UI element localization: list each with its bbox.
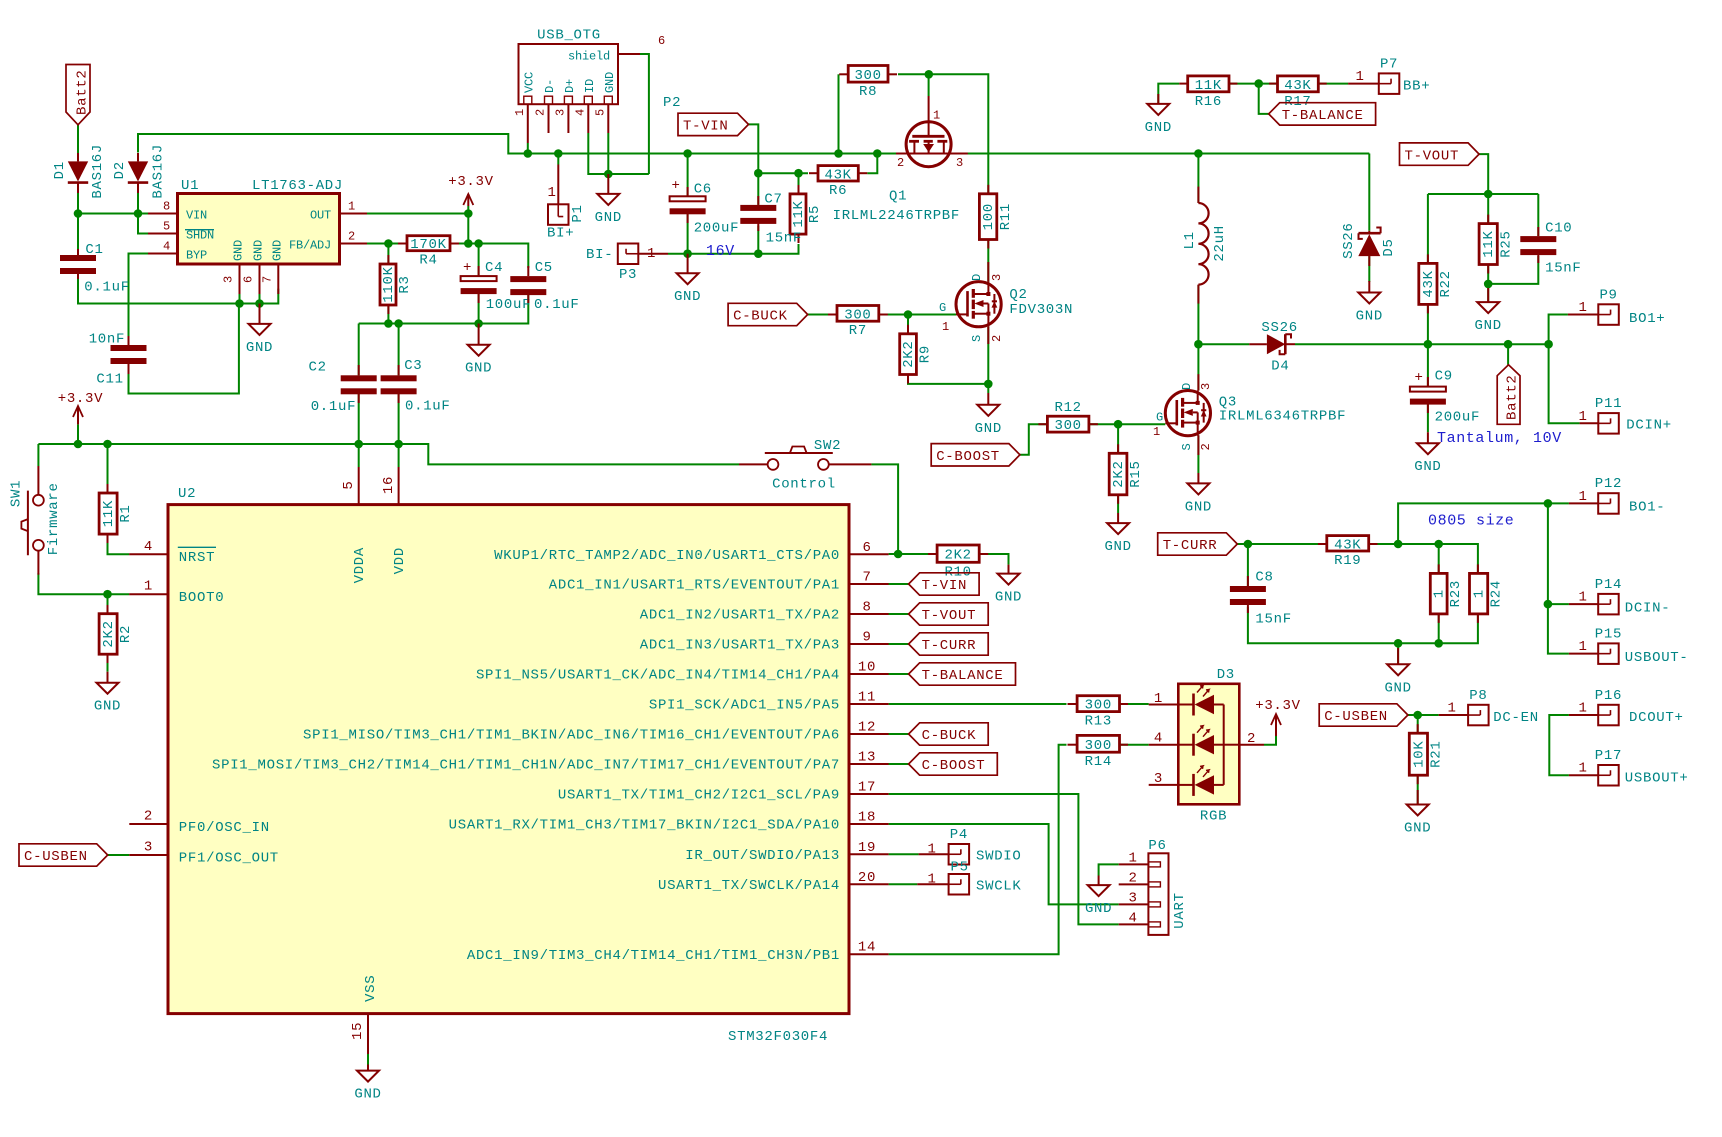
- wire R9 bottom to Q2 source: [908, 375, 988, 384]
- svg-text:GND: GND: [1085, 901, 1112, 917]
- svg-text:11K: 11K: [791, 200, 807, 227]
- svg-text:1: 1: [1578, 701, 1587, 717]
- svg-text:C1: C1: [85, 242, 103, 258]
- svg-text:43K: 43K: [1284, 78, 1311, 94]
- svg-text:1: 1: [942, 320, 949, 334]
- ground: [1185, 473, 1212, 515]
- svg-text:shield: shield: [568, 50, 610, 64]
- wire C3 bottom: [398, 392, 400, 444]
- capacitor C11: [111, 345, 147, 364]
- svg-text:10nF: 10nF: [89, 332, 125, 348]
- resistor R15: [1109, 453, 1144, 495]
- wire Q3 source down: [1197, 435, 1199, 473]
- MCU U2 body: [168, 505, 849, 1014]
- svg-text:P8: P8: [1469, 688, 1487, 704]
- svg-text:DCOUT+: DCOUT+: [1629, 710, 1684, 726]
- junction 798.5,173.2: [794, 169, 803, 178]
- svg-text:1: 1: [1153, 425, 1160, 439]
- wire T-VOUT pin8: [888, 613, 908, 615]
- ground: [595, 174, 622, 226]
- wire T-BALANCE drop: [1259, 84, 1269, 114]
- svg-text:U1: U1: [181, 178, 199, 194]
- svg-text:2: 2: [1199, 443, 1213, 450]
- net label T-VOUT: [909, 603, 989, 625]
- svg-text:GND: GND: [1414, 459, 1441, 475]
- junction 1438.7,544: [1434, 540, 1443, 549]
- wire C-USBEN to PF1: [108, 854, 130, 856]
- wire PA5 to R13: [889, 703, 1067, 705]
- svg-text:R8: R8: [859, 84, 877, 100]
- svg-text:VCC: VCC: [522, 72, 536, 93]
- wire T-CURR pin9: [888, 643, 908, 645]
- svg-text:R4: R4: [419, 253, 437, 269]
- connector P17: [1595, 748, 1622, 786]
- wire C4 top lead: [478, 244, 480, 277]
- svg-text:43K: 43K: [824, 167, 851, 183]
- wire switch node to D4: [1198, 343, 1249, 345]
- capacitor C8: [1230, 586, 1266, 605]
- wire C9 top: [1427, 344, 1429, 386]
- svg-text:ADC1_IN1/USART1_RTS/EVENTOUT/P: ADC1_IN1/USART1_RTS/EVENTOUT/PA1: [549, 578, 840, 594]
- wire P4 wire: [889, 853, 919, 855]
- svg-text:RGB: RGB: [1200, 808, 1227, 824]
- resistor R5: [790, 194, 823, 234]
- junction 1398.1,643.3: [1394, 639, 1403, 648]
- svg-text:4: 4: [163, 240, 170, 254]
- wire C10 bottom: [1488, 256, 1538, 284]
- svg-text:FDV303N: FDV303N: [1009, 302, 1073, 318]
- connector P12: [1595, 476, 1622, 514]
- wire R8 to Q1 gate node: [898, 74, 988, 194]
- svg-text:R24: R24: [1489, 580, 1505, 607]
- svg-text:D+: D+: [563, 79, 577, 93]
- svg-text:6: 6: [242, 276, 256, 283]
- svg-text:USART1_TX/TIM1_CH2/I2C1_SCL/PA: USART1_TX/TIM1_CH2/I2C1_SCL/PA9: [558, 788, 840, 804]
- svg-text:1: 1: [1355, 69, 1364, 85]
- ground: [1356, 281, 1383, 325]
- resistor R23: [1430, 573, 1464, 614]
- svg-text:BB+: BB+: [1403, 79, 1430, 95]
- wire PA0 to R10: [889, 553, 938, 555]
- connector P7: [1379, 56, 1400, 94]
- LED D3 body: [1178, 684, 1239, 805]
- ground: [465, 324, 492, 377]
- resistor R11: [979, 194, 1013, 240]
- wire P12 stub: [1548, 502, 1569, 504]
- svg-text:SPI1_MOSI/TIM3_CH2/TIM14_CH1/T: SPI1_MOSI/TIM3_CH2/TIM14_CH1/TIM1_CH1N/A…: [212, 758, 840, 774]
- svg-text:SWCLK: SWCLK: [976, 879, 1022, 895]
- switch SW1 Firmware: [9, 466, 63, 575]
- ground: [354, 1071, 381, 1103]
- wire R9 top: [907, 315, 909, 334]
- svg-text:SS26: SS26: [1261, 320, 1297, 336]
- svg-text:SWDIO: SWDIO: [976, 849, 1022, 865]
- svg-text:12: 12: [858, 720, 876, 736]
- svg-text:D5: D5: [1381, 238, 1397, 256]
- svg-text:D4: D4: [1271, 359, 1289, 375]
- svg-text:R5: R5: [807, 205, 823, 223]
- wire OUT node down: [467, 214, 469, 244]
- svg-text:ID: ID: [583, 79, 597, 93]
- svg-text:GND: GND: [465, 361, 492, 377]
- wire Batt2 bottom stub: [1507, 344, 1509, 365]
- svg-text:R6: R6: [829, 183, 847, 199]
- capacitor C3: [381, 375, 417, 394]
- svg-text:Batt2: Batt2: [75, 69, 91, 115]
- connector P8: [1468, 688, 1489, 726]
- wire R3 top stub: [387, 244, 389, 265]
- svg-text:Firmware: Firmware: [46, 482, 62, 555]
- svg-text:Tantalum, 10V: Tantalum, 10V: [1437, 430, 1562, 447]
- wire Q1 S/D rail: [896, 153, 968, 155]
- svg-text:3: 3: [1154, 771, 1163, 787]
- svg-text:18: 18: [858, 810, 876, 826]
- wire resistor stubs: [108, 74, 1489, 784]
- wire T-CURR node: [1237, 543, 1327, 545]
- svg-text:S: S: [1180, 443, 1194, 450]
- junction 558.3,153.5: [554, 149, 563, 158]
- wire L1 bottom to switch node: [1197, 285, 1199, 344]
- LED D3 RGB internals: [1149, 667, 1264, 824]
- svg-text:BAS16J: BAS16J: [151, 144, 167, 199]
- wire FB node: [367, 243, 407, 245]
- svg-text:D1: D1: [52, 161, 68, 179]
- svg-text:T-VOUT: T-VOUT: [922, 608, 977, 624]
- svg-text:G: G: [1156, 411, 1163, 425]
- svg-text:OUT: OUT: [310, 208, 331, 222]
- wire R12 to Q3 gate: [1089, 423, 1165, 425]
- svg-text:BOOT0: BOOT0: [179, 590, 225, 606]
- capacitor C10: [1520, 236, 1556, 255]
- svg-text:P1: P1: [570, 204, 586, 222]
- svg-text:1: 1: [647, 246, 656, 262]
- junction 358.7,444: [354, 440, 363, 449]
- junction 239.5,303.5: [235, 299, 244, 308]
- wire P2 pin5 GND down: [607, 133, 609, 174]
- svg-text:SW2: SW2: [814, 438, 841, 454]
- svg-text:1: 1: [1472, 589, 1488, 598]
- svg-text:P16: P16: [1595, 688, 1622, 704]
- power +3.3V near U1 OUT: [448, 174, 494, 214]
- svg-text:C-USBEN: C-USBEN: [24, 849, 88, 865]
- wire rail to L1: [1197, 154, 1199, 204]
- net label T-BALANCE: [909, 663, 1016, 685]
- regulator U1 body: [178, 194, 340, 265]
- svg-text:C2: C2: [309, 359, 327, 375]
- capacitor C2: [341, 375, 377, 394]
- junction 138,213.5: [134, 209, 143, 218]
- diode D1 BAS16J: [52, 144, 106, 199]
- svg-text:4: 4: [1154, 731, 1163, 747]
- svg-text:WKUP1/RTC_TAMP2/ADC_IN0/USART1: WKUP1/RTC_TAMP2/ADC_IN0/USART1_CTS/PA0: [494, 548, 840, 564]
- svg-text:0805 size: 0805 size: [1428, 512, 1514, 529]
- resistor R16: [1188, 76, 1229, 110]
- svg-text:VIN: VIN: [186, 208, 207, 222]
- svg-text:GND: GND: [232, 240, 246, 261]
- svg-text:+3.3V: +3.3V: [58, 391, 104, 407]
- wire Q2 source down: [987, 327, 989, 393]
- ground: [1384, 648, 1411, 696]
- wire R17 to P7: [1318, 83, 1348, 85]
- wire node D1/D2 to U1 VIN: [78, 213, 148, 215]
- svg-text:1: 1: [1578, 639, 1587, 655]
- svg-text:D3: D3: [1217, 667, 1235, 683]
- svg-text:R22: R22: [1438, 270, 1454, 297]
- wire R13 to D3 pin1: [1120, 703, 1149, 705]
- junction 388.4,323.5: [384, 319, 393, 328]
- wire PA9 to P6 pin4: [889, 794, 1119, 924]
- connector P2 USB_OTG: [513, 27, 681, 143]
- wire R10 right to GND: [979, 554, 1008, 565]
- transistor Q2 FDV303N: [956, 282, 1001, 327]
- svg-text:170K: 170K: [410, 237, 446, 253]
- wire connector pin stubs: [558, 84, 1598, 885]
- inductor L1 22uH: [1182, 187, 1228, 304]
- resistor R24: [1470, 573, 1505, 614]
- wire R25 bottom: [1487, 265, 1489, 284]
- wire C-BOOST pin13: [888, 763, 908, 765]
- svg-text:+: +: [671, 178, 680, 194]
- wire P16-P17 tie: [1549, 715, 1569, 775]
- net label Batt2 bottom: [1497, 365, 1520, 425]
- svg-text:T-CURR: T-CURR: [922, 638, 977, 654]
- svg-text:P12: P12: [1595, 476, 1622, 492]
- svg-text:SS26: SS26: [1341, 222, 1357, 258]
- wire P2 pin1 VCC: [527, 143, 529, 154]
- junction 1508.1,344.2: [1504, 340, 1513, 349]
- svg-text:+: +: [1414, 370, 1423, 386]
- svg-text:STM32F030F4: STM32F030F4: [728, 1029, 828, 1045]
- svg-text:D: D: [1180, 383, 1194, 390]
- svg-text:8: 8: [163, 200, 170, 214]
- MCU U2 pins and text: [129, 467, 889, 1071]
- svg-text:1: 1: [1432, 589, 1448, 598]
- wire D3 pin2 to +3.3V: [1264, 736, 1276, 745]
- connector P9: [1598, 287, 1619, 325]
- svg-text:1: 1: [348, 200, 355, 214]
- svg-text:SHDN: SHDN: [186, 228, 214, 242]
- power +3.3V near D3: [1255, 698, 1301, 736]
- svg-text:C4: C4: [485, 260, 503, 276]
- svg-text:BYP: BYP: [186, 248, 207, 262]
- net label T-VIN: [909, 573, 980, 595]
- svg-text:BI-: BI-: [586, 247, 613, 263]
- junction 478.6,243.5: [474, 239, 483, 248]
- svg-text:43K: 43K: [1421, 270, 1437, 297]
- svg-text:6: 6: [862, 540, 871, 556]
- wire R6 right up: [867, 154, 877, 174]
- junction 78,213.5: [74, 209, 83, 218]
- wire rail corner to D5: [1368, 154, 1370, 231]
- svg-text:+3.3V: +3.3V: [1255, 698, 1301, 714]
- svg-text:1: 1: [1578, 590, 1587, 606]
- wire C7 top node: [749, 124, 759, 204]
- svg-text:11K: 11K: [101, 500, 117, 527]
- ground: [1085, 876, 1112, 918]
- svg-text:2: 2: [144, 809, 153, 825]
- svg-text:3: 3: [956, 156, 963, 170]
- svg-text:R23: R23: [1448, 580, 1464, 607]
- svg-text:+: +: [463, 260, 472, 276]
- svg-text:3: 3: [1199, 383, 1213, 390]
- wire C4 bottom: [478, 293, 480, 324]
- wire T-BALANCE pin10: [888, 673, 908, 675]
- junction 908,314.5: [904, 310, 913, 319]
- svg-text:43K: 43K: [1334, 537, 1361, 553]
- svg-text:2K2: 2K2: [901, 340, 917, 367]
- resistor R4: [407, 236, 450, 269]
- svg-text:11K: 11K: [1481, 230, 1497, 257]
- svg-text:1: 1: [927, 872, 936, 888]
- svg-text:DCIN-: DCIN-: [1625, 601, 1671, 617]
- junction 838.5,153.5: [834, 149, 843, 158]
- junction 1417.7,715: [1413, 711, 1422, 720]
- svg-text:4: 4: [573, 109, 587, 116]
- svg-text:GND: GND: [1384, 680, 1411, 696]
- wire D4 to VOUT rail: [1295, 343, 1549, 345]
- svg-text:GND: GND: [1104, 539, 1131, 555]
- wire BO1- net up: [1398, 503, 1569, 653]
- junction 398.6,323.5: [394, 319, 403, 328]
- connector P6 UART: [1119, 838, 1188, 935]
- wire R16 left to GND: [1158, 84, 1179, 104]
- wire C8 bottom: [1248, 607, 1478, 643]
- wire C-BUCK pin12: [888, 733, 908, 735]
- power +3.3V left rail: [58, 391, 104, 444]
- resistor R7: [837, 306, 879, 340]
- connector P3: [618, 244, 639, 284]
- svg-text:T-BALANCE: T-BALANCE: [1282, 108, 1364, 124]
- resistor R22: [1419, 263, 1454, 304]
- wire P14 stub: [1548, 603, 1569, 605]
- svg-text:SPI1_MISO/TIM3_CH1/TIM1_BKIN/A: SPI1_MISO/TIM3_CH1/TIM1_BKIN/ADC_IN6/TIM…: [303, 728, 840, 744]
- svg-text:GND: GND: [1185, 499, 1212, 515]
- svg-text:R3: R3: [397, 275, 413, 293]
- svg-text:IR_OUT/SWDIO/PA13: IR_OUT/SWDIO/PA13: [685, 848, 840, 864]
- transistor Q1 IRLML2246TRPBF: [833, 96, 968, 224]
- svg-text:C6: C6: [694, 182, 712, 198]
- svg-text:0.1uF: 0.1uF: [84, 280, 130, 296]
- svg-text:P5: P5: [951, 860, 969, 876]
- svg-text:P6: P6: [1148, 838, 1166, 854]
- wire T-VOUT label down: [1479, 154, 1488, 194]
- svg-text:GND: GND: [595, 210, 622, 226]
- ground: [995, 565, 1022, 606]
- ground: [1414, 432, 1441, 475]
- svg-text:ADC1_IN9/TIM3_CH4/TIM14_CH1/TI: ADC1_IN9/TIM3_CH4/TIM14_CH1/TIM1_CH3N/PB…: [467, 948, 840, 964]
- svg-text:GND: GND: [603, 72, 617, 93]
- svg-text:8: 8: [862, 600, 871, 616]
- svg-text:15nF: 15nF: [1255, 611, 1291, 627]
- wire C2 bottom: [358, 392, 360, 444]
- ground: [94, 672, 121, 715]
- wire P2 shield down: [640, 54, 649, 174]
- svg-text:Q2: Q2: [1009, 287, 1027, 303]
- wire D1 to junction: [77, 193, 79, 214]
- svg-text:R16: R16: [1195, 94, 1222, 110]
- svg-text:2: 2: [990, 335, 1004, 342]
- junction 758.3,173.2: [754, 169, 763, 178]
- wire C11 bottom loop: [129, 304, 239, 394]
- svg-text:USART1_RX/TIM1_CH3/TIM17_BKIN/: USART1_RX/TIM1_CH3/TIM17_BKIN/I2C1_SDA/P…: [449, 818, 840, 834]
- resistor R1: [99, 493, 134, 534]
- svg-text:15nF: 15nF: [1545, 260, 1581, 276]
- net label T-VIN: [678, 113, 749, 135]
- ground: [975, 393, 1002, 437]
- svg-text:VDD: VDD: [392, 547, 408, 574]
- wire GND stub R19 node: [1397, 643, 1399, 664]
- svg-text:10K: 10K: [1411, 741, 1427, 768]
- svg-text:Q1: Q1: [889, 189, 907, 205]
- capacitor C9: [1410, 370, 1446, 405]
- svg-text:1: 1: [1128, 850, 1137, 866]
- wire R4 to C4/C5: [450, 244, 528, 269]
- connector P1: [547, 185, 586, 225]
- svg-text:PF1/OSC_OUT: PF1/OSC_OUT: [179, 850, 279, 866]
- net label T-CURR: [1158, 533, 1238, 555]
- junction 1198.4,344.2: [1194, 340, 1203, 349]
- svg-text:1: 1: [1578, 489, 1587, 505]
- capacitor C5: [510, 276, 546, 295]
- resistor R8: [848, 66, 888, 101]
- svg-text:GND: GND: [270, 240, 284, 261]
- svg-text:VSS: VSS: [363, 975, 379, 1002]
- wire PA10 to P6 pin3: [889, 824, 1119, 904]
- wire R1 top: [107, 444, 109, 493]
- wire Batt2 to D1: [77, 125, 79, 153]
- svg-text:P15: P15: [1595, 626, 1622, 642]
- svg-text:GND: GND: [252, 240, 266, 261]
- wire T-VIN node across: [758, 172, 808, 174]
- svg-text:1: 1: [513, 109, 527, 116]
- svg-text:16: 16: [381, 476, 397, 494]
- junction 1438.7,643.3: [1434, 639, 1443, 648]
- svg-text:4: 4: [144, 539, 153, 555]
- svg-text:0.1uF: 0.1uF: [534, 297, 580, 313]
- resistor R10: [937, 545, 979, 580]
- wire VDD stub: [398, 444, 400, 467]
- diode D2 BAS16J: [112, 144, 167, 199]
- svg-text:+3.3V: +3.3V: [448, 174, 494, 190]
- svg-text:GND: GND: [975, 421, 1002, 437]
- svg-text:0.1uF: 0.1uF: [311, 399, 357, 415]
- wire R25 top: [1487, 194, 1489, 224]
- wire C6 top: [687, 154, 689, 197]
- svg-text:R2: R2: [118, 625, 134, 643]
- wire C9 bottom: [1427, 404, 1429, 433]
- wire P6 pin1 to GND: [1099, 864, 1119, 875]
- svg-text:D-: D-: [543, 79, 557, 93]
- svg-text:100: 100: [981, 203, 997, 230]
- connector P14: [1595, 577, 1622, 615]
- svg-text:19: 19: [858, 840, 876, 856]
- junction 107.5,594.2: [103, 590, 112, 599]
- net label C-USBEN: [1319, 704, 1408, 726]
- svg-text:1: 1: [1447, 701, 1456, 717]
- wire BYP to C11: [129, 254, 149, 346]
- svg-text:C-BOOST: C-BOOST: [922, 758, 986, 774]
- svg-text:9: 9: [862, 630, 871, 646]
- resistor R25: [1479, 224, 1514, 265]
- junction 1488.2,283.9: [1484, 280, 1493, 289]
- svg-text:15: 15: [350, 1022, 366, 1040]
- svg-text:300: 300: [854, 68, 881, 84]
- wire R21 bottom: [1417, 775, 1419, 804]
- svg-text:2K2: 2K2: [101, 620, 117, 647]
- connector P11: [1595, 396, 1622, 434]
- svg-text:11K: 11K: [1195, 78, 1222, 94]
- wire C7 bottom: [757, 226, 759, 254]
